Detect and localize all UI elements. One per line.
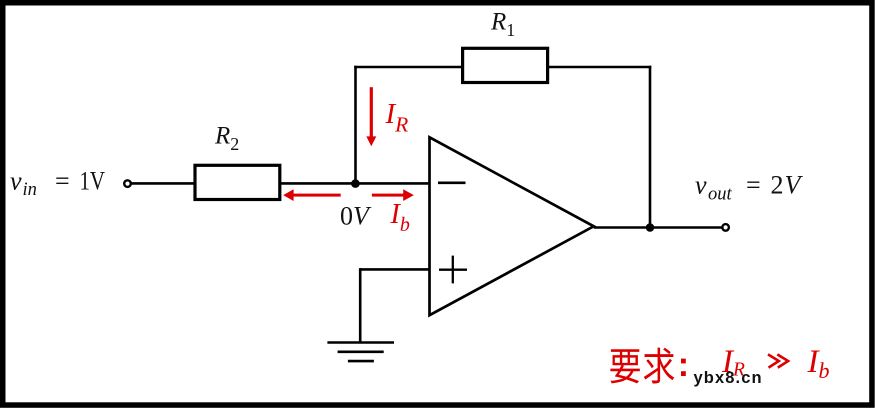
wire input to R2 [132, 182, 195, 185]
wire R2 to op-amp inverting input [281, 182, 430, 185]
ground [327, 341, 394, 344]
resistor R1 [463, 48, 548, 82]
wire feedback top right [549, 66, 651, 69]
current arrow into R2 (left) [283, 189, 341, 201]
requirement note char 求 [644, 348, 674, 384]
current arrow Ib (right) [372, 189, 414, 201]
svg-text:ybx8.cn: ybx8.cn [694, 369, 763, 387]
current arrow IR (down) [366, 87, 376, 146]
wire feedback top left [354, 66, 463, 69]
much-greater-than sign [768, 354, 788, 367]
op-amp minus sign [438, 182, 466, 185]
op-amp U1 [430, 137, 594, 315]
output terminal [722, 224, 729, 231]
resistor R2 [195, 165, 280, 199]
wire feedback down to output [649, 66, 652, 228]
requirement note char 要 [610, 349, 639, 383]
wire non-inverting input [360, 268, 430, 271]
op-amp plus sign [439, 269, 467, 271]
wire node up to feedback [354, 66, 357, 184]
wire op-amp output [594, 226, 722, 229]
input terminal [124, 180, 131, 187]
wire down to ground [359, 268, 362, 342]
svg-text:0V: 0V [340, 202, 372, 231]
node junction dot at output [646, 223, 655, 232]
requirement note colon [681, 359, 686, 364]
node junction dot at inverting input [351, 179, 360, 188]
